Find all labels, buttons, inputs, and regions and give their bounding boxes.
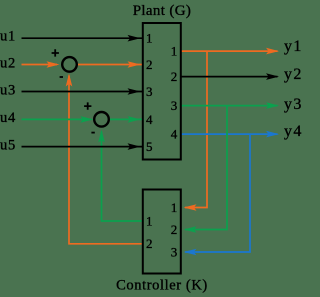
svg-text:3: 3 [171, 98, 178, 113]
svg-text:1: 1 [146, 213, 153, 228]
svg-text:u4: u4 [0, 110, 16, 126]
svg-text:4: 4 [146, 112, 153, 127]
svg-text:1: 1 [171, 200, 178, 215]
summing junction S2 [94, 112, 109, 127]
summing junction S1 [62, 57, 77, 72]
wire S1 to Plant pin 2 (orange) [78, 61, 142, 68]
plus sign S2 [84, 102, 91, 109]
wire u3 to Plant pin 3 (black) [22, 88, 143, 95]
svg-text:y1: y1 [284, 38, 303, 55]
wire S2 to Plant pin 4 (green) [110, 116, 142, 123]
wire branch from y1 to Controller pin 1 (orange) [184, 51, 208, 211]
svg-text:3: 3 [171, 244, 178, 259]
wire branch from y3 to Controller pin 2 (green) [184, 106, 228, 233]
svg-text:3: 3 [146, 84, 153, 99]
svg-text:y4: y4 [284, 123, 303, 140]
svg-text:2: 2 [146, 57, 153, 72]
wire y3 from Plant pin 3 (green) [181, 102, 279, 109]
svg-text:y2: y2 [284, 66, 303, 83]
wire u2 to summing junction S1 (orange) [22, 61, 60, 68]
svg-text:1: 1 [171, 44, 178, 59]
svg-text:u5: u5 [0, 138, 16, 154]
wire y2 from Plant pin 2 (black) [181, 73, 279, 80]
wire y4 from Plant pin 4 (blue) [181, 131, 279, 138]
svg-text:u1: u1 [0, 28, 16, 44]
svg-text:u2: u2 [0, 56, 16, 72]
svg-text:2: 2 [171, 69, 178, 84]
wire y1 from Plant pin 1 (orange) [181, 48, 279, 55]
svg-text:Plant (G): Plant (G) [133, 3, 192, 19]
wire feedback Controller pin 2 to S1 (orange) [66, 74, 142, 244]
svg-text:4: 4 [171, 127, 178, 142]
svg-text:y3: y3 [284, 96, 303, 113]
svg-text:2: 2 [171, 222, 178, 237]
minus sign S2 [91, 132, 94, 134]
svg-text:2: 2 [146, 236, 153, 251]
plus sign S1 [52, 49, 59, 56]
wire u5 to Plant pin 5 (black) [22, 143, 143, 150]
svg-text:5: 5 [146, 139, 153, 154]
svg-text:u3: u3 [0, 83, 16, 99]
minus sign S1 [60, 76, 63, 78]
wire u1 to Plant pin 1 (black) [22, 35, 143, 42]
svg-text:Controller (K): Controller (K) [116, 278, 208, 294]
block Controller (K) [143, 190, 181, 274]
block Plant (G) [143, 23, 181, 160]
wire feedback Controller pin 1 to S2 (green) [98, 130, 142, 222]
wire branch from y4 to Controller pin 3 (blue) [184, 134, 251, 255]
svg-text:1: 1 [146, 31, 153, 46]
wire u4 to summing junction S2 (green) [22, 116, 94, 123]
